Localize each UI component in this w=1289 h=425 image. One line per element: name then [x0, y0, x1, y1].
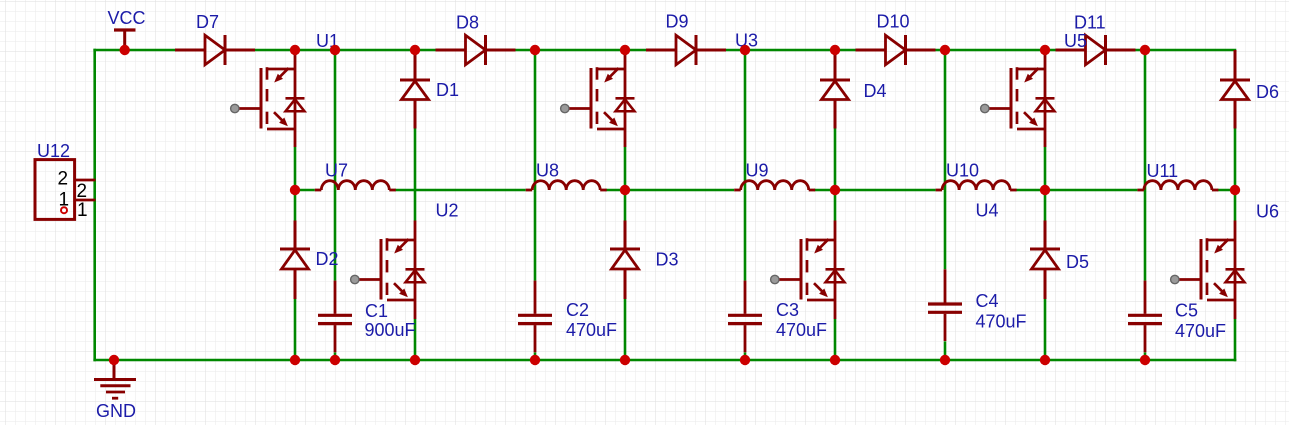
wire top rail segment D8-D9 — [515, 49, 646, 52]
transistor U5 — [981, 50, 1055, 147]
VCC label — [108, 8, 146, 28]
C5 label — [1175, 301, 1198, 321]
capacitor C3 — [728, 281, 762, 353]
svg-text:470uF: 470uF — [566, 320, 617, 340]
transistor U3 — [561, 50, 635, 147]
inductor U11 — [1137, 181, 1218, 190]
diode D6 — [1220, 50, 1250, 129]
wire top rail segment D9-D10 — [726, 49, 856, 52]
wire node row segment U9-U10 — [814, 189, 935, 192]
wire column U5 source to node row — [1044, 147, 1047, 190]
svg-text:D2: D2 — [316, 249, 339, 269]
U6 label — [1256, 202, 1279, 222]
wire left rail vertical — [93, 49, 96, 362]
diode D5 — [1030, 221, 1060, 300]
svg-text:D8: D8 — [456, 13, 479, 33]
D8 label — [456, 13, 479, 33]
U2 label — [436, 201, 459, 221]
wire column C2 vertical — [534, 50, 537, 360]
svg-text:C2: C2 — [566, 300, 589, 320]
wire node row segment U7-U8 — [395, 189, 526, 192]
svg-text:D5: D5 — [1066, 252, 1089, 272]
D3 label — [656, 250, 679, 270]
wire node row segment U11-right — [1217, 189, 1235, 192]
svg-text:U11: U11 — [1147, 161, 1179, 181]
D7 label — [196, 12, 219, 32]
D4 label — [864, 81, 887, 101]
U7 label — [325, 161, 348, 181]
svg-text:U6: U6 — [1256, 202, 1279, 222]
U12 pin 1 name — [59, 190, 70, 211]
transistor U6 — [1171, 221, 1245, 320]
transistor U4 — [771, 221, 845, 320]
wire column D4 to U4 drain — [834, 129, 837, 221]
svg-text:D11: D11 — [1074, 13, 1106, 33]
svg-text:U2: U2 — [436, 201, 459, 221]
wire column C4 vertical — [944, 50, 947, 360]
U4 label — [976, 201, 999, 221]
diode D11 — [1056, 35, 1136, 65]
wire top rail segment D7-D8 — [255, 49, 436, 52]
svg-text:U10: U10 — [946, 161, 979, 181]
C2 value label — [566, 320, 617, 340]
svg-text:2: 2 — [77, 181, 88, 202]
U12 pin 2 name — [58, 169, 69, 190]
D6 label — [1256, 82, 1279, 102]
D1 label — [436, 80, 459, 100]
wire top rail segment D10-D11 — [936, 49, 1056, 52]
inductor U7 — [315, 181, 396, 190]
svg-text:U4: U4 — [976, 201, 999, 221]
D2 label — [316, 249, 339, 269]
svg-text:VCC: VCC — [108, 8, 146, 28]
diode D2 — [280, 221, 310, 300]
wire node row segment U1-U7 — [295, 189, 315, 192]
wire column U1 node row to D2 — [294, 190, 297, 221]
wire node row segment U10-U11 — [1016, 189, 1138, 192]
junction dots node row — [290, 185, 1240, 195]
diode D4 — [820, 50, 850, 129]
svg-text:470uF: 470uF — [1175, 321, 1226, 341]
C3 label — [776, 300, 799, 320]
wire top rail segment VCC-D7 — [93, 49, 175, 52]
svg-text:U9: U9 — [746, 161, 769, 181]
diode D1 — [400, 50, 430, 129]
svg-text:D6: D6 — [1256, 82, 1279, 102]
D9 label — [666, 12, 689, 32]
wire column C3 vertical — [744, 50, 747, 360]
capacitor C1 — [318, 281, 352, 353]
wire node row segment U8-U3 — [606, 189, 735, 192]
wire column node row to U6 drain — [1234, 190, 1237, 221]
wire column D1 to U2 drain — [414, 129, 417, 221]
diode D7 — [175, 35, 255, 65]
svg-text:D4: D4 — [864, 81, 887, 101]
transistor U1 — [231, 50, 305, 147]
svg-text:1: 1 — [59, 190, 70, 211]
wire column U3 source to node row — [624, 147, 627, 190]
connector U12 — [35, 160, 96, 220]
svg-text:U5: U5 — [1064, 31, 1087, 51]
wire column U3 node row to D3 — [624, 190, 627, 221]
svg-text:1: 1 — [77, 200, 88, 221]
svg-text:GND: GND — [96, 401, 136, 421]
wire column D2 to bottom rail — [294, 299, 297, 360]
U11 label — [1147, 161, 1179, 181]
inductor U8 — [526, 181, 607, 190]
U12 pin 2 number — [77, 181, 88, 202]
wire top rail segment D11-right corner — [1135, 49, 1236, 52]
D5 label — [1066, 252, 1089, 272]
inductor U10 — [936, 181, 1017, 190]
svg-text:D1: D1 — [436, 80, 459, 100]
svg-text:C3: C3 — [776, 300, 799, 320]
svg-text:470uF: 470uF — [976, 312, 1027, 332]
svg-text:U8: U8 — [536, 161, 559, 181]
U8 label — [536, 161, 559, 181]
D11 label — [1074, 13, 1106, 33]
wire column C1 vertical — [334, 50, 337, 360]
C5 value label — [1175, 321, 1226, 341]
ground — [94, 360, 136, 398]
GND label — [96, 401, 136, 421]
wire column U6 source to bottom rail — [1234, 319, 1237, 361]
wire column U4 source to bottom rail — [834, 319, 837, 360]
transistor U2 — [351, 221, 425, 320]
svg-text:C5: C5 — [1175, 301, 1198, 321]
U12 pin 1 number — [77, 200, 88, 221]
junction dots top rail — [120, 45, 1151, 55]
D10 label — [877, 12, 910, 32]
diode D9 — [646, 35, 726, 65]
U10 label — [946, 161, 979, 181]
C4 value label — [976, 312, 1027, 332]
U5 label — [1064, 31, 1087, 51]
U9 label — [746, 161, 769, 181]
svg-text:U7: U7 — [325, 161, 348, 181]
C2 label — [566, 300, 589, 320]
wire column C5 vertical — [1144, 50, 1147, 360]
svg-text:900uF: 900uF — [365, 320, 416, 340]
VCC power symbol — [114, 30, 136, 50]
svg-text:C1: C1 — [365, 301, 388, 321]
U3 label — [735, 31, 758, 51]
capacitor C4 — [928, 269, 962, 341]
inductor U9 — [734, 181, 815, 190]
svg-text:C4: C4 — [976, 291, 999, 311]
svg-text:470uF: 470uF — [776, 320, 827, 340]
svg-text:D3: D3 — [656, 250, 679, 270]
wire column D6 to node row — [1234, 129, 1237, 191]
svg-text:2: 2 — [58, 169, 69, 190]
C1 label — [365, 301, 388, 321]
wire bottom rail — [93, 359, 1236, 362]
junction dots bottom rail — [109, 355, 1150, 365]
wire column U1 source to node row — [294, 147, 297, 190]
svg-text:D9: D9 — [666, 12, 689, 32]
capacitor C5 — [1128, 281, 1162, 353]
C1 value label — [365, 320, 416, 340]
U12 label — [37, 141, 70, 161]
C4 label — [976, 291, 999, 311]
wire column U5 node row to D5 — [1044, 190, 1047, 221]
svg-text:U12: U12 — [37, 141, 70, 161]
diode D10 — [856, 35, 936, 65]
wire column D3 to bottom rail — [624, 299, 627, 360]
svg-text:D10: D10 — [877, 12, 910, 32]
diode D3 — [610, 221, 640, 300]
wire column D5 to bottom rail — [1044, 299, 1047, 360]
capacitor C2 — [518, 281, 552, 353]
wire column U2 source to bottom rail — [414, 319, 417, 360]
svg-text:D7: D7 — [196, 12, 219, 32]
diode D8 — [436, 35, 516, 65]
U1 label — [316, 31, 339, 51]
C3 value label — [776, 320, 827, 340]
